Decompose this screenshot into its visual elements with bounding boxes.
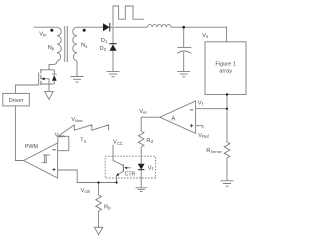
wire VRef stub on + input (196, 126, 203, 129)
capacitor C1 (polarized) (178, 46, 192, 48)
svg-text:D2: D2 (100, 46, 107, 52)
MOSFET body diode (52, 75, 57, 81)
minus PWM (53, 149, 56, 151)
svg-text:Np: Np (48, 45, 55, 51)
svg-text:PWM: PWM (25, 144, 39, 150)
resistor RSense zigzag (224, 142, 230, 158)
wire inductor to output node and Figure-1-array box (171, 27, 227, 42)
wire capacitor branch (183, 27, 185, 47)
resistor Rb zigzag (96, 195, 102, 211)
inductor L1 (148, 25, 171, 28)
opto LED (pointing down) (138, 164, 145, 170)
junction dot at sense node (226, 108, 228, 110)
resistor Rd zigzag (138, 131, 144, 147)
svg-text:VRef: VRef (198, 133, 209, 139)
MOSFET body arrow head (41, 77, 44, 80)
opto transistor emitter (117, 171, 123, 175)
svg-text:Vf: Vf (148, 165, 154, 171)
wire secondary bottom to ground (76, 61, 78, 76)
ground under capacitor (3-bar) (177, 71, 190, 76)
junction dot at box bottom (226, 93, 228, 95)
svg-text:Vs: Vs (202, 33, 208, 39)
CTR arrow head (124, 167, 127, 169)
wire box bottom to sense node and RSense (226, 95, 228, 143)
ground under opto LED (3-bar) (136, 188, 148, 192)
junction dot at emitter node (116, 181, 118, 183)
svg-text:Vf: Vf (198, 100, 204, 106)
ground arrow under Rb (open triangle) (94, 227, 102, 234)
minus op-amp A (190, 109, 193, 111)
svg-text:Driver: Driver (9, 98, 24, 104)
ground under D2 (3-bar) (107, 71, 120, 76)
wire secondary top rail to D1 anode (77, 26, 103, 28)
MOSFET body connection (42, 79, 49, 84)
svg-text:Rb: Rb (104, 204, 111, 210)
svg-text:Vctrl: Vctrl (81, 188, 91, 194)
ground under RSense (3-bar) (221, 181, 234, 186)
plus PWM (52, 168, 55, 171)
Figure 1 array box (205, 42, 246, 95)
diode bars (cathodes) (109, 23, 144, 170)
opto transistor Q1 base bar (122, 164, 124, 172)
svg-text:Ns: Ns (81, 43, 87, 49)
wire D2 branch down (112, 27, 114, 71)
plus op-amp A (190, 124, 193, 127)
svg-text:VCC: VCC (113, 140, 123, 146)
svg-text:D1: D1 (101, 38, 108, 44)
wire Rd to opto LED (140, 147, 142, 164)
svg-text:A: A (171, 115, 176, 122)
PWM comparator triangle (24, 143, 58, 178)
emitter arrow head (116, 173, 119, 176)
op-amp A (error amplifier, pointing left) (160, 101, 196, 133)
phase dot secondary (83, 29, 86, 32)
wire - input loop to sawtooth (58, 136, 69, 150)
MOSFET body diode bar (52, 73, 57, 75)
diode D1 (series rectifier) (103, 23, 110, 31)
svg-text:Vin: Vin (39, 31, 47, 37)
wire MOSFET gate to Driver (15, 85, 38, 93)
phase dot primary (50, 29, 53, 32)
wire sense node to op-amp inverting input (196, 108, 227, 110)
cathode bar D1 (109, 23, 111, 32)
wire emitter down to Vctrl node (116, 175, 118, 182)
wire RSense to ground (226, 158, 228, 181)
wire source to ground (48, 84, 50, 91)
wire Rb to ground arrow (98, 211, 100, 227)
hysteresis symbol inside PWM (42, 155, 50, 163)
wire capacitor to ground (183, 52, 185, 71)
ground secondary (3-bar) (71, 77, 84, 83)
svg-text:Rd: Rd (146, 138, 153, 144)
svg-text:Ver: Ver (139, 109, 147, 115)
transformer T1 primary winding Np (57, 27, 61, 61)
MOSFET Q2 channel segments (40, 69, 42, 85)
MOSFET source lead (41, 81, 54, 84)
MOSFET Q2 gate bar (38, 73, 40, 86)
diode D2 (freewheeling) (109, 45, 116, 51)
Driver box (3, 93, 30, 106)
svg-text:CTR: CTR (125, 171, 136, 177)
wire node after D1 to inductor (110, 26, 148, 28)
svg-text:VMin: VMin (55, 132, 65, 138)
wire primary bottom to MOSFET drain (49, 61, 57, 70)
transformer T1 secondary winding Ns (73, 27, 77, 61)
svg-text:array: array (219, 69, 232, 75)
wire LED cathode to ground (140, 170, 142, 188)
optocoupler dashed box (105, 156, 155, 178)
wire Rb branch (98, 183, 100, 196)
wire Vin input stub (34, 26, 58, 28)
svg-text:RSense: RSense (206, 148, 222, 154)
waveform square-wave annotation at switch node (113, 6, 144, 26)
cathode bar D2 (109, 43, 116, 45)
wire PWM + input to Vctrl node (58, 170, 117, 183)
waveform sawtooth ramp TS (58, 125, 109, 136)
junction dot at Vctrl node (98, 181, 100, 183)
wire op-amp output to Verr node and Rd (141, 117, 160, 131)
MOSFET drain lead (41, 70, 54, 74)
transformer core (65, 26, 68, 62)
op-amp input polarity marks (52, 110, 193, 171)
CTR arrow into transistor (125, 167, 131, 169)
svg-text:VMax: VMax (71, 117, 82, 123)
svg-text:TS: TS (80, 138, 86, 144)
ground under MOSFET source (open triangle) (45, 91, 53, 99)
wire Driver output to PWM apex (15, 106, 23, 161)
cathode bar opto LED (138, 169, 144, 171)
svg-text:Figure 1: Figure 1 (215, 62, 236, 68)
junction dot at capacitor (182, 26, 185, 29)
wire VCC to opto transistor collector (113, 145, 123, 166)
